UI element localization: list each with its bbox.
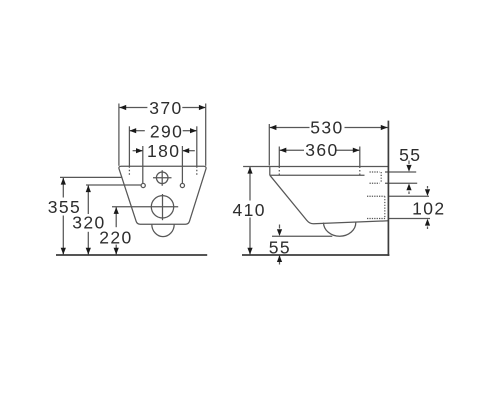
- extension line 360 right: [359, 147, 361, 167]
- front view toilet outline: [119, 166, 206, 224]
- arrowhead 360 right: [353, 148, 360, 153]
- arrowhead 355 bottom: [61, 248, 66, 255]
- svg-text:55: 55: [269, 237, 291, 257]
- arrowhead 320 top: [86, 185, 91, 192]
- arrowhead 410 top: [247, 167, 252, 174]
- extension line 370 right: [205, 104, 207, 166]
- svg-text:220: 220: [99, 227, 132, 247]
- extension line 290 left: [128, 126, 130, 166]
- extension line 355 (inlet height): [60, 176, 122, 178]
- drain pipe hidden outline top: [367, 195, 385, 197]
- extension line 370 left: [118, 104, 120, 166]
- arrowhead 55 right lower: [406, 184, 411, 191]
- mounting hole right: [180, 183, 184, 187]
- arrowhead 220 top: [114, 207, 119, 214]
- arrowhead 320 bottom: [86, 248, 91, 255]
- svg-text:180: 180: [147, 141, 180, 161]
- dimension line 290: [129, 130, 144, 132]
- side view bowl bottom: [314, 221, 389, 224]
- water inlet circle: [156, 172, 168, 184]
- side view rim front face: [269, 167, 271, 176]
- extension line 180 left: [142, 146, 144, 183]
- drain reference line bottom (102): [388, 218, 430, 220]
- arrowhead 355 top: [61, 178, 66, 185]
- dimension line 220: [115, 207, 117, 227]
- extension line 530 left: [268, 124, 270, 166]
- arrowhead 55 bottom upper: [277, 229, 282, 236]
- arrowhead 180 right: [182, 148, 189, 153]
- dimension line 370: [119, 107, 147, 109]
- extension line 220 (drain height, crosshair): [112, 206, 178, 208]
- side view rim underside: [270, 174, 365, 176]
- drain circle: [151, 196, 173, 218]
- wall line: [387, 121, 389, 256]
- arrowhead 102 lower: [425, 219, 430, 226]
- arrowhead 55 bottom lower: [277, 255, 282, 262]
- arrowhead 290 left: [129, 128, 136, 133]
- arrow tail 55 right upper: [408, 161, 410, 165]
- arrowhead 530 left: [270, 125, 277, 130]
- arrowhead 410 bottom: [247, 248, 252, 255]
- dimension line 355: [62, 177, 64, 197]
- supply reference line top (55): [385, 171, 416, 173]
- drain pipe hidden outline right: [384, 196, 386, 218]
- supply pipe hidden outline top: [370, 171, 380, 173]
- svg-text:360: 360: [305, 140, 338, 160]
- arrowhead 370 right: [199, 105, 206, 110]
- supply pipe hidden outline bottom: [370, 182, 380, 184]
- floor line right view: [242, 254, 389, 256]
- arrowhead 220 bottom: [114, 248, 119, 255]
- arrowhead 360 left: [280, 148, 287, 153]
- mounting hole left: [141, 183, 145, 187]
- dimension line 360: [279, 149, 304, 151]
- arrowhead 370 left: [119, 105, 126, 110]
- arrowhead 530 right: [381, 125, 388, 130]
- svg-text:410: 410: [232, 200, 265, 220]
- side view trap dome: [324, 222, 356, 236]
- extension line 290 right: [196, 126, 198, 166]
- supply reference line bottom (55): [385, 182, 417, 184]
- bowl clearance reference line (55 bottom): [272, 235, 332, 237]
- floor line left view: [56, 254, 207, 256]
- inlet crosshair vertical: [161, 170, 163, 186]
- dimension line 320: [87, 185, 89, 214]
- svg-text:370: 370: [149, 98, 182, 118]
- dimension line 180 tails: [133, 150, 143, 152]
- arrow tail 55 bottom lower: [279, 256, 281, 265]
- svg-text:55: 55: [399, 145, 421, 165]
- dimension line 410: [249, 167, 251, 201]
- side view bowl front slant: [270, 175, 314, 224]
- arrowhead 102 upper: [425, 189, 430, 196]
- extension line 320 (holes height): [86, 184, 141, 186]
- arrow tail 102 lower: [427, 227, 429, 230]
- arrow tail 102 upper: [427, 186, 429, 189]
- drain pipe hidden outline bottom: [367, 218, 385, 220]
- side view rim top + 410 extension: [243, 166, 388, 168]
- svg-text:290: 290: [150, 122, 183, 142]
- svg-text:530: 530: [310, 118, 343, 138]
- drain reference line top (102): [388, 195, 429, 197]
- arrowhead 290 right: [190, 128, 197, 133]
- front view trap dome: [152, 224, 174, 236]
- arrow tail 55 bottom upper: [279, 225, 281, 229]
- svg-text:102: 102: [412, 198, 445, 218]
- arrowhead 55 right upper: [406, 165, 411, 172]
- arrowhead 180 left: [136, 148, 143, 153]
- drain crosshair vertical: [162, 194, 164, 220]
- extension line 360 left: [278, 147, 280, 167]
- supply pipe hidden outline right: [380, 172, 382, 183]
- arrow tail 55 right lower: [408, 192, 410, 195]
- inlet crosshair horizontal: [153, 177, 172, 179]
- extension line 180 right: [181, 146, 183, 183]
- dimension line 530: [269, 127, 309, 129]
